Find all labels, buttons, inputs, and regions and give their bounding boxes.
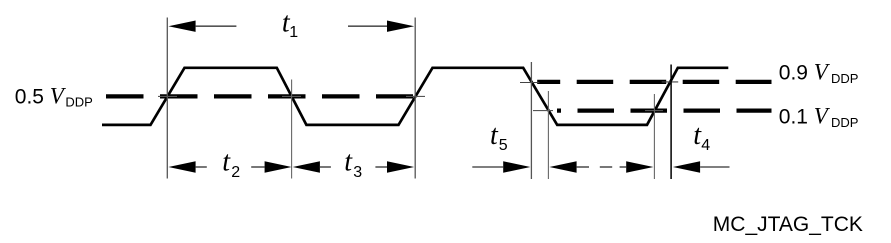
svg-text:0.5: 0.5 [15,86,44,109]
vertical measurement line at rise3 0.9 crossing [670,65,672,180]
crossing tick at 0.1 level, fall 2 [533,110,553,112]
t5 dimension arrow (points right to 0.9 fall crossing) [472,166,503,168]
t3 dimension right arrow [375,166,387,168]
svg-text:2: 2 [231,164,240,181]
0.9 VDDP dashed reference line [537,80,771,84]
t2 dimension right arrow [251,166,264,168]
t3 dimension left arrow [293,161,320,172]
crossing tick at 0.9 level, fall 2 [520,82,539,84]
svg-text:5: 5 [499,137,508,154]
svg-text:t: t [344,147,353,178]
svg-text:1: 1 [289,24,298,41]
t1 dimension left arrow [168,21,195,32]
vertical measurement line at fall2 0.9 crossing [530,62,532,179]
connector dash between t5 and t4 outer arrows [600,166,612,168]
svg-text:t: t [222,147,231,178]
crossing tick at 0.9 level, rise 3 [662,81,679,83]
svg-text:0.1: 0.1 [779,106,808,129]
t4 dimension left outer arrow (points right to 0.1 rise crossing) [620,166,627,168]
vertical measurement line at rise2 0.5 crossing [414,18,416,179]
svg-text:V: V [814,104,831,129]
t1 dimension right arrow [348,25,387,27]
svg-text:V: V [814,59,831,84]
t2 dimension left arrow [168,161,195,172]
0.1 VDDP dashed reference line [557,108,772,112]
svg-text:3: 3 [353,164,362,181]
svg-text:4: 4 [701,137,710,154]
svg-text:DDP: DDP [831,115,858,130]
svg-text:V: V [50,84,67,109]
crossing tick at 0.5 level, rise 1 [158,95,177,97]
waveform MC_JTAG_TCK solid trace [102,68,728,125]
0.5 VDDP dashed reference line [106,94,413,98]
crossing tick at 0.5 level, rise 2 [406,95,425,97]
svg-text:0.9: 0.9 [779,61,808,84]
t4 dimension right arrow (points left to 0.9 rise crossing) [673,161,700,172]
vertical measurement line at rise1 0.5 crossing [166,18,168,179]
crossing tick at 0.1 level, rise 3 [645,110,663,112]
vertical measurement line at fall1 0.5 crossing [291,80,293,179]
crossing tick at 0.5 level, fall 1 [282,95,301,97]
t5 dimension right outer arrow (points left to 0.1 fall crossing) [549,161,576,172]
vertical measurement line at fall2 0.1 crossing [547,91,549,179]
svg-text:DDP: DDP [65,94,92,109]
vertical measurement line at rise3 0.1 crossing [653,94,655,179]
svg-text:MC_JTAG_TCK: MC_JTAG_TCK [713,213,863,236]
svg-text:t: t [490,120,499,151]
svg-text:DDP: DDP [831,71,858,86]
